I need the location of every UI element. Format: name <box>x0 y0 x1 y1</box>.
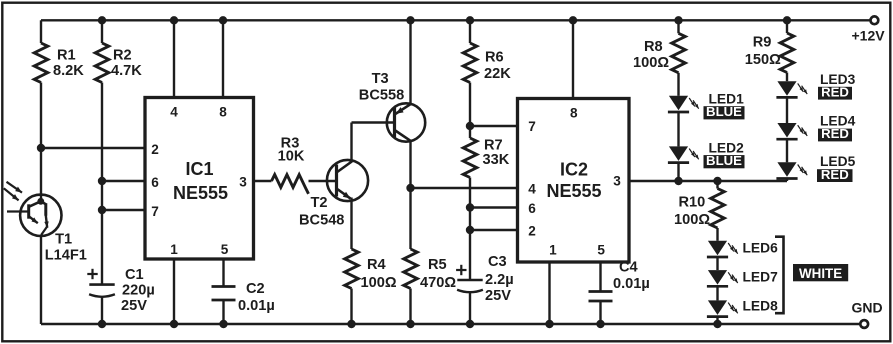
svg-text:3: 3 <box>613 174 621 189</box>
node T3 collector junction <box>406 184 414 192</box>
svg-text:L14F1: L14F1 <box>45 247 87 263</box>
svg-text:2: 2 <box>528 224 536 239</box>
wire IC1 pin2 <box>41 147 145 149</box>
LED3 red <box>776 81 807 97</box>
resistor R2 <box>95 43 142 83</box>
svg-text:100Ω: 100Ω <box>361 275 397 291</box>
pin 8 IC2 <box>569 16 578 120</box>
svg-text:0.01µ: 0.01µ <box>613 276 650 292</box>
label T1 <box>45 232 87 264</box>
node pins 6-7 junctions on R2 line <box>98 177 106 214</box>
svg-text:8: 8 <box>570 106 578 121</box>
terminal GND <box>852 300 883 328</box>
svg-text:BC558: BC558 <box>359 88 404 104</box>
LED8 white <box>707 300 738 316</box>
node pin2 junction <box>466 226 474 234</box>
svg-text:C1: C1 <box>125 267 144 283</box>
svg-text:NE555: NE555 <box>173 183 228 203</box>
label LED2 <box>704 140 745 168</box>
LED7 white <box>707 270 738 286</box>
svg-text:+12V: +12V <box>852 28 886 44</box>
svg-text:2: 2 <box>151 142 159 157</box>
svg-text:WHITE: WHITE <box>799 266 842 281</box>
svg-text:R8: R8 <box>644 39 663 55</box>
wire GND bottom rail <box>41 323 861 325</box>
wire R2 branch <box>101 20 103 324</box>
svg-text:R9: R9 <box>753 35 772 51</box>
svg-text:NE555: NE555 <box>546 181 601 201</box>
svg-text:1: 1 <box>549 242 557 257</box>
wire LED4 to LED5 <box>786 139 788 162</box>
svg-text:4: 4 <box>170 105 178 120</box>
wire R1 branch <box>40 20 42 148</box>
wire R9 branch <box>783 16 791 33</box>
light arrows into T1 <box>4 182 22 201</box>
svg-text:22K: 22K <box>484 66 511 82</box>
LED1 blue <box>668 96 699 112</box>
wire R10 branch <box>716 181 718 189</box>
op-amp timer IC1 NE555 <box>145 98 254 260</box>
node R2 top <box>98 16 106 24</box>
svg-text:2.2µ: 2.2µ <box>485 272 514 288</box>
svg-text:C2: C2 <box>246 281 265 297</box>
svg-text:T1: T1 <box>55 232 72 248</box>
pin 7 IC2 <box>528 119 536 134</box>
svg-text:6: 6 <box>151 175 159 190</box>
svg-text:7: 7 <box>151 204 159 219</box>
svg-text:C4: C4 <box>619 260 639 276</box>
bracket white LED group <box>775 237 784 314</box>
svg-text:LED6: LED6 <box>743 241 779 256</box>
transistor T2 BC548 <box>327 160 368 201</box>
wire R3 to T2 base <box>309 180 337 182</box>
wire LED6 to LED7 <box>716 257 718 270</box>
pin 4 IC1 <box>170 16 178 119</box>
node pin6 junction <box>466 203 474 211</box>
label WHITE <box>793 264 848 281</box>
capacitor C4 0.01u <box>589 260 650 301</box>
wire C3 to ground rail <box>466 292 474 328</box>
svg-text:5: 5 <box>221 242 229 257</box>
svg-text:BLUE: BLUE <box>706 104 742 119</box>
svg-text:R10: R10 <box>679 195 706 211</box>
svg-text:100Ω: 100Ω <box>633 55 669 71</box>
LED6 white <box>707 241 738 257</box>
wire IC2 pin2 <box>470 229 518 231</box>
svg-text:1: 1 <box>170 242 178 257</box>
resistor R3 10K <box>272 135 309 193</box>
node R1-T1-pin2 junction <box>37 144 45 152</box>
timer IC2 NE555 <box>518 99 630 263</box>
svg-text:6: 6 <box>528 201 536 216</box>
wire IC2 pin4 <box>411 187 518 189</box>
wire R8 branch <box>674 16 682 33</box>
pin 1 IC2 <box>545 242 557 328</box>
svg-text:GND: GND <box>852 300 883 316</box>
svg-text:LED7: LED7 <box>743 269 779 284</box>
wire LED8 to ground rail <box>713 317 721 328</box>
wire IC1 pin3 to R3 <box>254 180 272 182</box>
label T2 <box>299 195 344 228</box>
wire R5 to ground rail <box>406 289 414 329</box>
wire T2 collector to T3 base <box>352 123 395 163</box>
label LED4 <box>818 114 856 142</box>
node pin7 junction <box>466 122 474 130</box>
wire LED7 to LED8 <box>716 286 718 300</box>
terminal +12V <box>852 16 886 43</box>
label LED3 <box>818 72 856 100</box>
wire IC2 pin7 <box>470 125 518 127</box>
svg-text:150Ω: 150Ω <box>745 52 781 68</box>
pin 2 IC1 <box>151 142 159 157</box>
label T3 <box>359 71 404 104</box>
capacitor C2 0.01u <box>212 281 275 314</box>
svg-text:220µ: 220µ <box>122 283 155 299</box>
pin 3 IC2 <box>613 174 621 189</box>
pin 4 IC2 <box>528 182 536 197</box>
svg-text:4.7K: 4.7K <box>111 63 142 79</box>
svg-text:8.2K: 8.2K <box>53 63 84 79</box>
svg-text:0.01µ: 0.01µ <box>238 298 275 314</box>
wire IC2 pin6 <box>470 206 518 208</box>
svg-text:RED: RED <box>821 167 849 182</box>
wire T1 emitter <box>40 235 42 325</box>
svg-text:IC2: IC2 <box>560 159 588 179</box>
svg-text:T2: T2 <box>311 195 328 211</box>
svg-text:BLUE: BLUE <box>706 153 742 168</box>
resistor R1 <box>34 43 84 83</box>
wire LED5 to output <box>786 179 788 181</box>
LED2 blue <box>668 146 699 162</box>
svg-text:R4: R4 <box>367 257 387 273</box>
svg-text:R1: R1 <box>57 48 76 64</box>
resistor R9 150 <box>745 33 794 72</box>
wire R6 branch <box>466 16 474 43</box>
capacitor C1 220u <box>87 267 154 314</box>
resistor R6 22K <box>463 43 511 83</box>
svg-text:T3: T3 <box>372 71 389 87</box>
resistor R5 470 <box>404 249 457 291</box>
pin 5 IC2 <box>596 242 605 328</box>
label LED7 <box>743 269 779 284</box>
LED4 red <box>776 123 807 139</box>
svg-text:33K: 33K <box>483 152 510 168</box>
wire IC1 pin7 <box>102 209 145 211</box>
svg-text:25V: 25V <box>121 298 147 314</box>
wire R8 to LED1 <box>677 73 679 96</box>
LED5 red <box>776 162 807 178</box>
pin 6 IC1 <box>151 175 159 190</box>
wire T3 emitter to rail <box>406 16 414 104</box>
pin 1 IC1 <box>170 242 178 328</box>
svg-text:C3: C3 <box>488 254 507 270</box>
wire +12V top rail <box>41 19 871 21</box>
wire IC2 pin3 output <box>629 180 787 182</box>
wire LED1 to LED2 <box>677 112 679 146</box>
phototransistor T1 L14F1 <box>7 195 62 236</box>
svg-text:470Ω: 470Ω <box>420 275 456 291</box>
node C1 bottom <box>98 320 106 328</box>
svg-text:7: 7 <box>528 119 536 134</box>
resistor R4 100 <box>345 249 397 291</box>
svg-text:RED: RED <box>821 84 849 99</box>
capacitor C3 2.2u <box>456 254 514 304</box>
svg-text:IC1: IC1 <box>185 159 213 179</box>
resistor R10 100 <box>674 189 724 228</box>
wire R10 to LED6 <box>716 228 718 241</box>
svg-text:100Ω: 100Ω <box>674 212 710 228</box>
svg-text:R6: R6 <box>485 50 504 66</box>
wire LED2 to output <box>674 163 682 185</box>
transistor T3 BC558 <box>387 103 425 141</box>
wire R4 to ground rail <box>347 289 355 329</box>
svg-text:25V: 25V <box>485 288 511 304</box>
pin 6 IC2 <box>528 201 536 216</box>
label LED8 <box>743 299 779 314</box>
svg-text:RED: RED <box>821 126 849 141</box>
svg-text:BC548: BC548 <box>299 212 344 228</box>
label LED6 <box>743 241 779 256</box>
pin 5 IC1 <box>219 242 228 328</box>
wire LED3 to LED4 <box>786 98 788 124</box>
resistor R7 33K <box>463 138 510 178</box>
pin 8 IC1 <box>219 16 227 119</box>
node R10 junction <box>713 177 721 185</box>
svg-text:LED8: LED8 <box>743 299 779 314</box>
wire T2 emitter <box>350 198 352 250</box>
pin 7 IC1 <box>151 204 159 219</box>
wire IC1 pin6 <box>102 180 145 182</box>
pin 3 IC1 <box>239 174 247 189</box>
wire T3 collector <box>409 141 411 250</box>
wire R7 to C3 <box>469 178 471 280</box>
svg-text:10K: 10K <box>278 149 305 165</box>
svg-text:3: 3 <box>239 174 247 189</box>
svg-text:R2: R2 <box>113 48 132 64</box>
label LED5 <box>817 154 856 182</box>
svg-text:5: 5 <box>597 242 605 257</box>
svg-text:R5: R5 <box>428 257 447 273</box>
label LED1 <box>704 92 745 120</box>
pin 2 IC2 <box>528 224 536 239</box>
wire R9 to LED3 <box>786 73 788 82</box>
resistor R8 100 <box>633 33 685 72</box>
svg-text:8: 8 <box>219 105 227 120</box>
svg-text:4: 4 <box>528 182 536 197</box>
wire T1 collector <box>40 148 42 201</box>
wire R6 to R7 <box>469 83 471 139</box>
